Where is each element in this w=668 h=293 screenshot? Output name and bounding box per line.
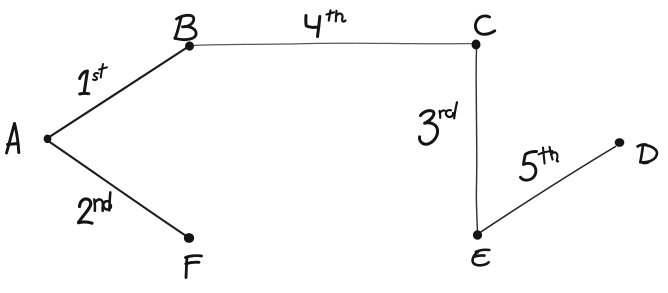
label node B (175, 15, 196, 39)
label edge 4th (306, 11, 346, 37)
wire edge C-E (476, 49, 477, 231)
node E (473, 230, 482, 240)
label node D (638, 144, 657, 163)
label edge 3rd (420, 102, 457, 144)
node F (184, 233, 194, 243)
node B (185, 41, 194, 50)
node C (472, 40, 481, 50)
label node A (7, 124, 19, 154)
node A (44, 135, 52, 144)
wire edge E-D (480, 147, 616, 233)
node D (615, 138, 625, 147)
wire edge B-C (193, 43, 471, 45)
label edge 5th (521, 147, 559, 180)
wire edge A-B (49, 48, 188, 138)
label edge 1st (80, 64, 107, 94)
label edge 2nd (79, 192, 111, 223)
label node F (186, 256, 202, 278)
wire edge A-F (49, 142, 186, 236)
label node C (475, 16, 494, 34)
label node E (473, 250, 490, 266)
